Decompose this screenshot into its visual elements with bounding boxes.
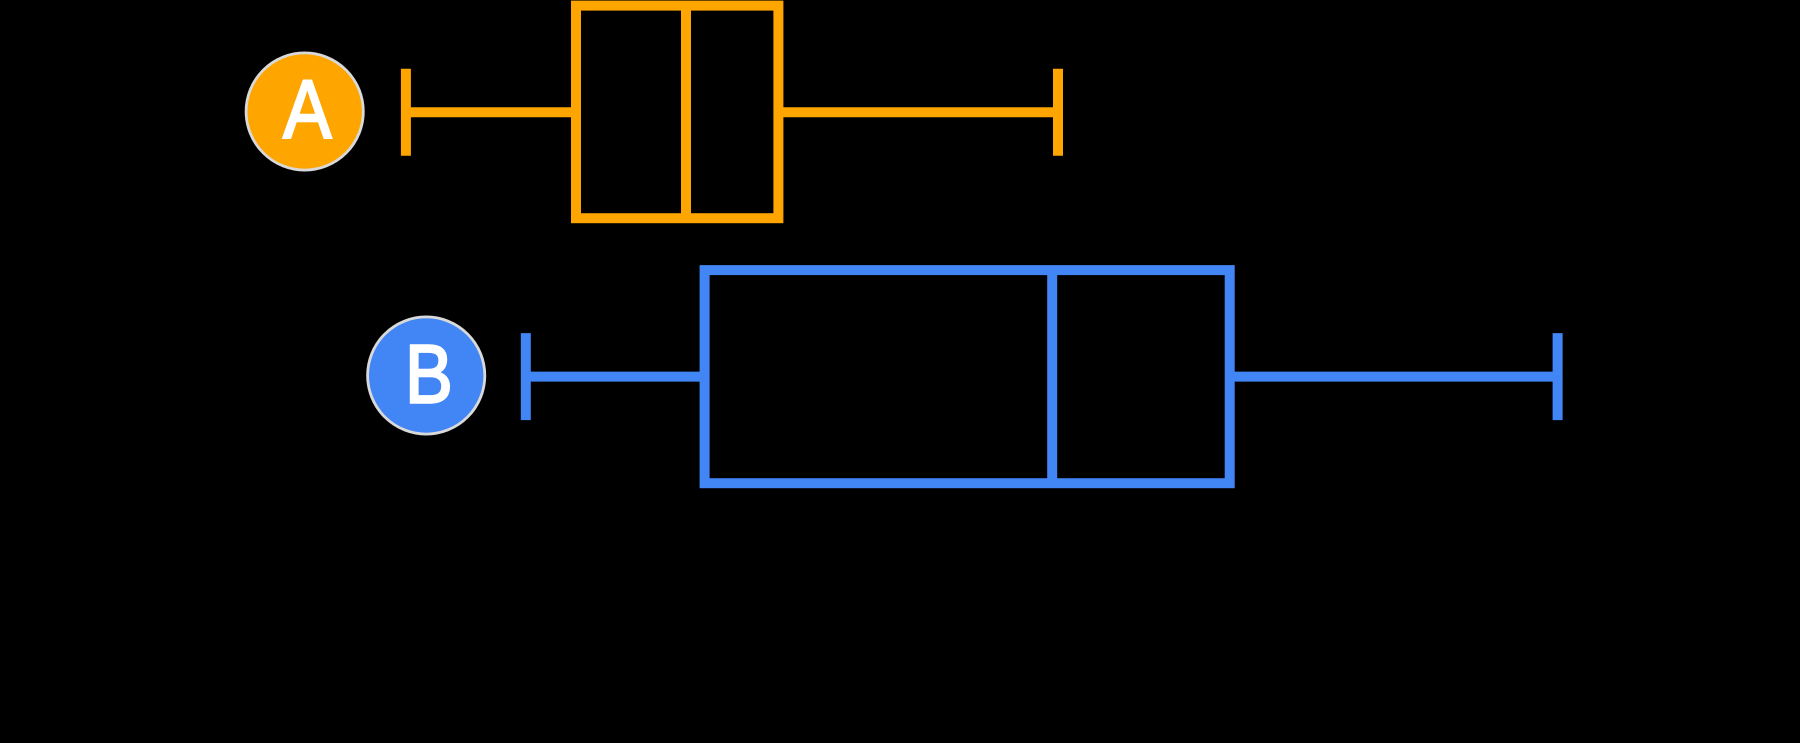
svg-text:B: B [405,329,453,421]
svg-text:A: A [283,64,331,156]
